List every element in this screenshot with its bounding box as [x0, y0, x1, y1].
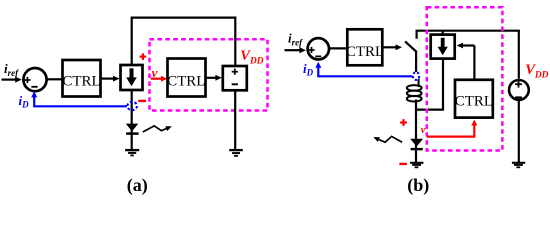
svg-text:CTRL: CTRL: [167, 73, 205, 89]
wire: CTRL to switch gate (b): [382, 44, 402, 50]
wire: junction to shunt source (b): [415, 59, 443, 109]
label + (red, LED voltage) (b): [400, 119, 407, 126]
svg-text:VDD: VDD: [240, 48, 263, 66]
svg-text:iD: iD: [303, 61, 314, 78]
current sense loop (blue dashed ellipse) (b): [413, 72, 419, 80]
ground (b, LED): [410, 163, 423, 168]
wire: source block to LED (a): [131, 90, 133, 150]
label v (red) with arrow into CTRL (b): [421, 120, 478, 137]
switch Q1 blade (b): [405, 41, 416, 51]
wire: V_DD source to ground (a): [234, 90, 236, 149]
label - (red, LED voltage) (b): [399, 163, 407, 165]
block CTRL U3 (b): [346, 29, 384, 65]
svg-text:CTRL: CTRL: [62, 73, 100, 89]
svg-text:v: v: [152, 65, 158, 80]
LED D2 (b): [410, 139, 423, 149]
svg-text:CTRL: CTRL: [455, 94, 493, 110]
wire: shunt source top stub (b): [442, 31, 444, 35]
dashed box: shunt dimming stage (b): [427, 7, 503, 150]
light emission squiggle arrow (a): [143, 126, 172, 132]
svg-text:(b): (b): [407, 175, 429, 196]
source V_DD circle (b): [509, 80, 529, 100]
svg-text:iref: iref: [4, 61, 19, 78]
controlled current source block (a): [121, 65, 143, 90]
wire: CTRL to shunt source control arrow (b): [457, 43, 475, 80]
LED D1 (a): [126, 124, 139, 134]
svg-text:CTRL: CTRL: [346, 44, 384, 60]
svg-text:VDD: VDD: [525, 62, 548, 80]
current sense loop (blue dashed ellipse) (a): [127, 102, 137, 110]
label - (red, source voltage v): [138, 100, 146, 102]
dashed box: linear driver (a): [150, 39, 268, 110]
node: summing junction S2 (b): [308, 38, 329, 59]
block CTRL U2 inner (a): [167, 59, 205, 97]
wire: inductor to LED (b): [415, 100, 417, 163]
wire: top rail (b): [417, 31, 519, 79]
wire: i_D feedback (blue) (a): [31, 91, 127, 106]
wire: top rail (a): [132, 18, 236, 66]
inductor L1 (b): [407, 79, 422, 102]
svg-text:iref: iref: [288, 31, 303, 48]
wire: i_D feedback (blue) (b): [315, 62, 412, 77]
source V_DD box (a): [223, 66, 247, 90]
svg-text:(a): (a): [127, 175, 148, 196]
wire: input arrow into summing junction (b): [285, 47, 307, 53]
block CTRL U4 (b): [455, 80, 493, 118]
svg-text:iD: iD: [19, 93, 30, 110]
block CTRL U1 (a): [62, 60, 100, 97]
node: summing junction S1 (a): [23, 68, 46, 91]
light emission squiggle arrow (b): [373, 136, 402, 142]
label + (red, source voltage v): [140, 53, 147, 60]
ground (b, right): [512, 163, 525, 168]
wire: summing junction to CTRL (a): [47, 78, 63, 80]
svg-text:v: v: [421, 125, 426, 136]
wire: input arrow into summing junction (a): [2, 77, 22, 83]
wire: V_DD to ground (b): [518, 100, 520, 163]
ground (a, right): [229, 150, 243, 156]
wire: CTRL to controlled source (a): [101, 76, 120, 82]
wire: summing junction to CTRL (b): [330, 47, 348, 49]
wire: inner CTRL to V_DD source (a): [206, 75, 222, 81]
wire: switch to sense loop (b): [415, 51, 417, 73]
controlled current source block (b): [431, 35, 455, 59]
ground (a, LED): [125, 150, 139, 155]
label v (red) with arrow into CTRL (a): [151, 65, 168, 82]
